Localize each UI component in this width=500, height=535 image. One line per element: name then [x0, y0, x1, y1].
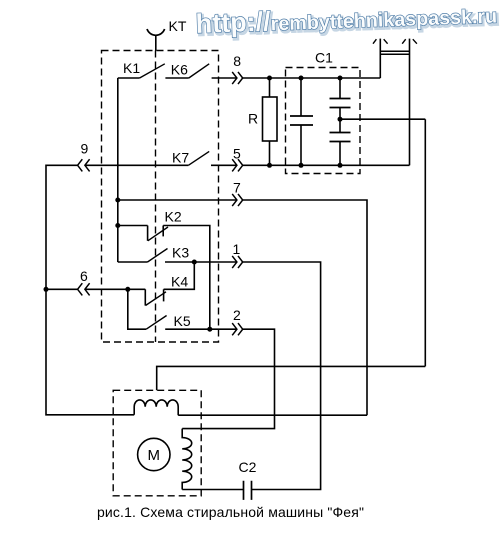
node dot K4 input	[125, 287, 130, 292]
wire K3 node down to K4 output	[164, 262, 195, 289]
plug socket bars	[380, 51, 409, 54]
capacitor C2 plates	[244, 481, 252, 500]
svg-text:9: 9	[81, 141, 89, 157]
node dot K5 output	[207, 327, 212, 332]
wire C1 mid tap right	[340, 118, 425, 120]
svg-text:7: 7	[233, 180, 241, 196]
motor M circle	[138, 438, 170, 470]
svg-text:K5: K5	[174, 313, 191, 329]
contact K3 blade	[148, 249, 168, 263]
contact K4 blade	[146, 292, 167, 306]
node dot K2 input	[115, 223, 120, 228]
contact K6 blade	[189, 64, 209, 78]
connector pin 9 chevrons	[78, 159, 90, 171]
wire pin 2 right and down to start winding	[182, 329, 274, 428]
contact K4 input wire	[128, 288, 146, 290]
capacitor C1b top lead	[339, 78, 341, 99]
node dot C1 mid tap	[338, 117, 343, 122]
svg-text:K1: K1	[123, 60, 140, 76]
wire K3 output to connector 1	[165, 261, 237, 263]
wire pin 7 right and down	[243, 200, 367, 415]
node dot K3 output	[192, 260, 197, 265]
wire K2 output down to K5 row	[163, 226, 210, 330]
wire pin 8 to plug prong	[243, 77, 381, 79]
wire pin 5 to right prong	[243, 164, 410, 166]
contact K1 fixed	[118, 77, 140, 79]
connector pin 2 chevrons	[232, 323, 243, 335]
svg-text:KT: KT	[169, 18, 187, 34]
capacitor C1a bottom lead	[300, 125, 302, 165]
contact K6 fixed	[165, 77, 188, 79]
watermark	[195, 0, 499, 41]
contact K2 pivot stub	[147, 226, 149, 241]
wire pin 6 to K4 input node	[85, 288, 128, 290]
contact K4 output stub	[163, 289, 165, 301]
left rail wire	[46, 165, 134, 414]
resistor R body	[263, 97, 278, 141]
node dot C1c bottom	[338, 163, 343, 168]
connector pin 1 chevrons	[232, 256, 243, 268]
connector pin 7 chevrons	[232, 194, 243, 206]
contact K2 input wire	[118, 225, 148, 227]
resistor R lower lead	[269, 141, 271, 165]
wire C1 tap to motor box	[157, 366, 426, 390]
connector pin 6 chevrons	[78, 283, 90, 295]
connector pin 8 chevrons	[232, 72, 243, 84]
wire K4 node down to K5 input	[128, 289, 146, 329]
capacitor C1b plates	[330, 99, 351, 108]
contact K3 input wire	[118, 261, 148, 263]
svg-text:рис.1. Схема стиральной машины: рис.1. Схема стиральной машины "Фея"	[97, 504, 364, 520]
node dot C1b top	[338, 76, 343, 81]
plug prong ticks	[373, 39, 417, 44]
svg-text:R: R	[248, 111, 258, 127]
contact K4 pivot stub	[144, 289, 146, 305]
svg-text:1: 1	[233, 241, 241, 257]
wire pin 9 to contact K7	[85, 164, 188, 166]
node dot C1a top	[299, 76, 304, 81]
svg-text:2: 2	[233, 307, 241, 323]
connector pin 5 chevrons	[232, 159, 243, 171]
main winding L1	[134, 400, 178, 415]
wire rail to pin 6	[46, 288, 78, 290]
contact K7 blade	[188, 151, 209, 165]
mechanical linkage dashed divider	[155, 51, 157, 343]
node dot R bottom	[267, 163, 272, 168]
resistor R leads	[269, 78, 271, 97]
wire K7 output to connector 5	[211, 164, 237, 166]
wire K6 output to connector 8	[212, 77, 237, 79]
capacitor C1b middle lead	[339, 108, 341, 133]
contact K2 output stub	[162, 226, 164, 237]
node dot C1a bottom	[299, 163, 304, 168]
wire node to connector 7	[118, 199, 237, 201]
wire pin 1 right and down to C2	[243, 262, 321, 490]
svg-text:8: 8	[233, 53, 241, 69]
capacitor C1a plates	[290, 116, 313, 125]
svg-text:K4: K4	[171, 274, 188, 290]
svg-text:K3: K3	[172, 245, 189, 261]
capacitor block C1 dashed box	[286, 68, 361, 174]
start winding L2	[182, 429, 192, 490]
wire K5 output to connector 2	[165, 328, 236, 330]
svg-text:M: M	[148, 447, 161, 464]
svg-text:K2: K2	[165, 209, 182, 225]
svg-text:K7: K7	[172, 150, 189, 166]
program switch dashed box	[102, 51, 219, 343]
wire KT to program box	[155, 35, 157, 50]
svg-text:6: 6	[80, 268, 88, 284]
node bus: K1 input vertical	[117, 78, 119, 262]
node dot R top	[267, 76, 272, 81]
plug left prong	[379, 39, 381, 78]
motor dashed box	[113, 390, 201, 496]
contact K2 blade	[148, 227, 168, 241]
plug right prong	[409, 39, 411, 166]
svg-text:C2: C2	[239, 459, 257, 475]
svg-text:5: 5	[233, 146, 241, 162]
node dot rail pin 6	[44, 287, 49, 292]
capacitor C1c bottom lead	[339, 142, 341, 166]
wire L1 to pin7 line	[178, 414, 367, 416]
thermal timer KT arc	[147, 29, 165, 35]
svg-text:K6: K6	[171, 62, 188, 78]
svg-text:C1: C1	[315, 50, 333, 66]
capacitor C1c plates	[330, 133, 351, 142]
node dot row7 on K1 bus	[115, 198, 120, 203]
contact K1 blade	[140, 64, 165, 78]
capacitor C1a top lead	[300, 78, 302, 116]
wire mid tap down	[424, 119, 426, 366]
wire L2 to capacitor C2	[182, 489, 243, 491]
contact K5 blade	[146, 316, 166, 330]
